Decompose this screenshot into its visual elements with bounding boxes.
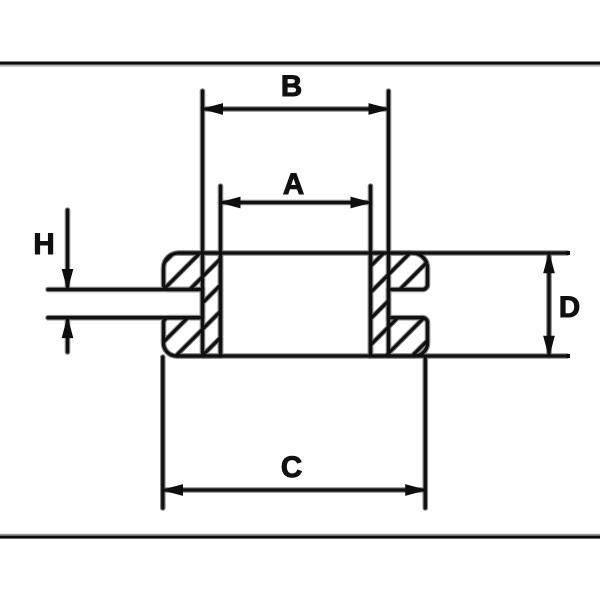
svg-text:A: A [283,168,304,201]
svg-text:B: B [281,70,302,103]
B dimension line [203,107,388,110]
svg-text:D: D [559,291,580,324]
B left extension line through part (groove root) [201,91,204,356]
C left extension line [161,357,164,508]
B left arrow [203,104,222,114]
A right extension line / hole edge [369,186,372,356]
panel bottom line into groove [48,316,203,319]
panel top line into groove [48,288,203,291]
A right arrow [351,197,370,207]
svg-text:H: H [33,228,54,261]
grommet top surface + D top extension line [179,251,568,254]
svg-text:C: C [281,451,302,484]
page bottom border rule [0,534,600,539]
section hatching (45 deg lines, left and right grommet halves) [57,240,528,370]
H dimension line upper segment [66,210,69,288]
grommet bottom surface + D bottom extension line [177,354,568,357]
C right arrow [406,485,425,495]
D dimension line [547,253,550,356]
D down arrow [544,336,554,355]
B right extension line through part (groove root) [387,91,390,356]
grommet left half outline [164,253,221,356]
C dimension line [163,488,425,491]
H dimension line lower segment [66,319,69,352]
page top border rule [0,62,600,67]
grommet right half outline [371,253,428,356]
A left extension line / hole edge [219,186,222,356]
A left arrow [221,197,240,207]
C right extension line [424,357,427,508]
section hatching halo (45 deg lines, left and right grommet halves) [57,240,528,370]
A dimension line [221,201,371,204]
B right arrow [369,104,388,114]
D extension end tick [567,252,570,255]
arrowheads [62,104,569,495]
H down arrow [62,270,72,289]
H up arrow [62,318,72,337]
D up arrow [544,253,554,272]
main drawing strokes [48,91,567,508]
C left arrow [163,485,182,495]
gray halo underlay duplicating all drawing strokes (scan fuzz effect) [48,91,567,508]
